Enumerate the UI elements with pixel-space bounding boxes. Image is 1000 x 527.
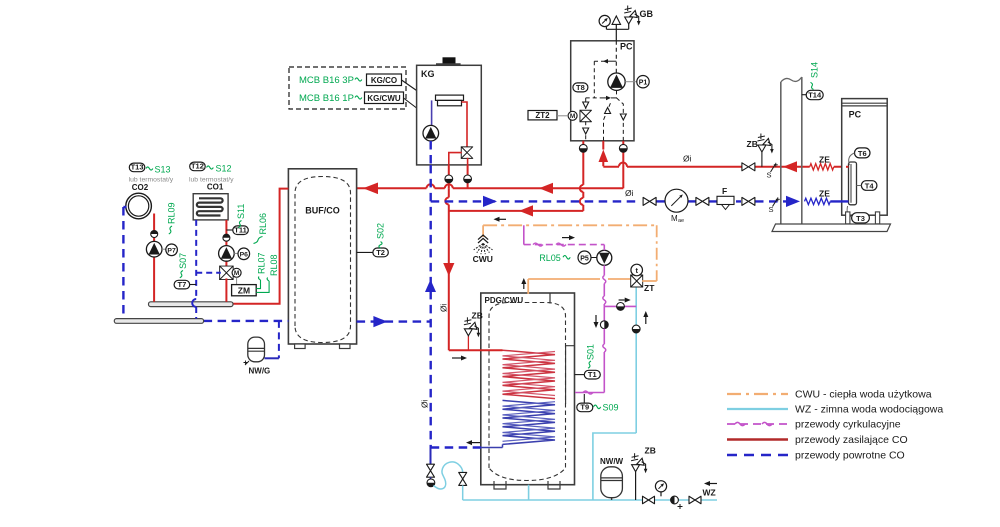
svg-text:Øi: Øi xyxy=(683,154,692,164)
wire KG/CWU to boiler xyxy=(404,98,417,108)
svg-text:T8: T8 xyxy=(576,83,585,92)
shower CWU symbol xyxy=(478,235,488,243)
wire dashed to 3way valve xyxy=(585,98,587,111)
DHW coil blue xyxy=(503,400,556,444)
wire red KG/CO drop to bus xyxy=(467,165,469,188)
flow arrow CWU left xyxy=(500,218,507,220)
sensor T11 link xyxy=(226,229,233,231)
wire red heat pump supply line xyxy=(603,166,848,168)
svg-text:przewody zasilające CO: przewody zasilające CO xyxy=(795,434,908,446)
wire green ZM to RL08 xyxy=(256,281,269,292)
wire cold water main WZ xyxy=(463,499,717,501)
wire top connection PC xyxy=(615,29,617,41)
wire squiggle S13 xyxy=(146,167,153,170)
sensor T14 xyxy=(806,90,823,99)
flow arrow branch right xyxy=(619,299,625,301)
manifold return bar xyxy=(114,319,203,324)
sensor T11 xyxy=(233,226,249,235)
wire blue KG internal supply xyxy=(431,100,433,125)
wire blue dashed KG pump to bottom xyxy=(430,141,432,165)
check valve WZ xyxy=(671,496,679,504)
big blue arrow up riser xyxy=(425,280,436,293)
svg-text:przewody powrotne CO: przewody powrotne CO xyxy=(795,450,905,462)
wire red KG valve bottom branch xyxy=(467,158,469,165)
floor plate outdoor xyxy=(772,224,891,232)
flow arrow circulation right xyxy=(562,237,569,239)
wire squiggle S11 xyxy=(238,221,241,228)
boiler KG enclosure xyxy=(417,65,482,165)
air vent above PC xyxy=(612,16,621,25)
svg-text:PC: PC xyxy=(849,110,862,120)
node M actuator PC xyxy=(568,111,577,120)
sensor T4 xyxy=(861,181,877,191)
svg-text:S02: S02 xyxy=(376,223,386,239)
pump P6 xyxy=(219,246,235,262)
legend return line xyxy=(727,454,788,457)
manifold supply bar xyxy=(149,302,234,307)
node P5 tag xyxy=(578,251,591,264)
DHW tank PDG/CWU xyxy=(481,293,575,485)
sensor T1 link xyxy=(575,374,585,376)
sensor T8 xyxy=(573,83,588,92)
svg-text:BUF/CO: BUF/CO xyxy=(305,206,340,216)
wire squiggle RL05 xyxy=(563,255,570,259)
wire squiggle S14 xyxy=(811,82,814,89)
wire magenta circulation drop from CWU line xyxy=(523,225,525,244)
wire green ZM to RL07 xyxy=(256,280,260,289)
thermometer t on ZT xyxy=(631,264,643,276)
node P1 tag xyxy=(637,76,649,88)
ball valve KG left xyxy=(445,175,453,183)
wire orange ZT right loop xyxy=(642,280,657,282)
wire red CO2 riser xyxy=(153,214,155,302)
wire magenta pump down xyxy=(603,265,605,275)
svg-text:P6: P6 xyxy=(240,252,249,259)
relief valve ZB on HP line xyxy=(761,152,763,167)
check valve circulation vertical xyxy=(600,321,608,329)
svg-text:S09: S09 xyxy=(603,403,619,413)
big red arrow on bus y188 xyxy=(539,183,553,194)
relief valve ZB at DHW feed xyxy=(467,336,469,350)
svg-text:M: M xyxy=(671,214,678,223)
wire orange drop to shower xyxy=(482,225,484,237)
wire P1 tag link xyxy=(625,81,637,83)
valve WZ 2 xyxy=(689,496,695,504)
buffer feet xyxy=(295,344,306,349)
radiator CO1 serpentine xyxy=(197,198,223,215)
wire red KG/CWU drop to bus xyxy=(448,165,450,188)
flow arrow CWU up xyxy=(523,284,525,289)
svg-text:GB: GB xyxy=(640,9,654,19)
svg-text:S: S xyxy=(767,171,772,180)
svg-text:CO2: CO2 xyxy=(132,183,149,192)
svg-text:T14: T14 xyxy=(808,91,822,100)
sensor T14 stub xyxy=(802,94,806,96)
svg-text:P5: P5 xyxy=(580,256,589,263)
sensor T7 xyxy=(174,280,190,289)
ball valve PC right xyxy=(619,144,627,152)
flex hose to fill valve xyxy=(434,462,463,489)
svg-text:T12: T12 xyxy=(191,162,204,171)
svg-text:RL06: RL06 xyxy=(258,213,268,235)
svg-text:WZ: WZ xyxy=(703,488,716,498)
svg-text:S01: S01 xyxy=(586,344,596,360)
wire KG/CO to boiler xyxy=(402,80,417,91)
svg-text:M: M xyxy=(570,113,575,120)
svg-text:RL05: RL05 xyxy=(539,253,561,263)
ball valve PC left xyxy=(579,144,587,152)
wire orange to ZT left xyxy=(528,278,600,280)
wire squiggle S12 xyxy=(207,166,214,169)
legend circulation line xyxy=(727,423,788,425)
wire M to ZM xyxy=(236,277,238,284)
wire red buffer left feed xyxy=(233,189,288,304)
svg-text:MCB B16 3P: MCB B16 3P xyxy=(299,75,354,86)
wire squiggle MCB1P xyxy=(355,96,362,99)
svg-text:Øi: Øi xyxy=(625,188,634,198)
node ZT2 tag box xyxy=(528,111,557,120)
wire blue vertical main riser xyxy=(430,165,432,449)
pump P1 xyxy=(608,73,625,90)
valve on red HP line xyxy=(742,163,749,171)
wire magenta down to tank port xyxy=(603,306,605,320)
wire red feed inside DHW tank xyxy=(480,349,503,351)
svg-text:T9: T9 xyxy=(580,403,589,412)
check valve on cold riser xyxy=(632,325,640,333)
svg-text:Øi: Øi xyxy=(420,399,430,408)
sensor T2 xyxy=(373,248,388,257)
sensor break S+ red line xyxy=(771,164,776,172)
wire squiggle S02 xyxy=(379,242,382,248)
wire cold feed riser to ZT xyxy=(593,287,636,500)
DHW tank bottom stem xyxy=(528,485,530,500)
wire red bus y188 to buffer xyxy=(357,187,624,189)
svg-text:ZT2: ZT2 xyxy=(535,111,550,120)
heat pump outdoor PC box xyxy=(842,99,888,216)
wire blue return manifold to buffer xyxy=(204,320,289,322)
radiator CO1 panel xyxy=(193,194,228,220)
svg-text:ZT: ZT xyxy=(644,283,655,293)
buffer inner vessel dashed xyxy=(295,177,351,343)
svg-text:ZB: ZB xyxy=(645,446,656,456)
svg-text:RL07: RL07 xyxy=(257,252,267,274)
wire magenta circulation horizontal xyxy=(524,244,605,246)
wire P6 link xyxy=(234,252,239,254)
svg-text:P1: P1 xyxy=(639,80,648,87)
flow arrow WZ in xyxy=(710,483,717,485)
sensor channel DHW xyxy=(566,345,575,347)
svg-text:ZB: ZB xyxy=(747,139,758,149)
controller PC indoor unit box xyxy=(571,41,634,141)
check valve CO1 xyxy=(223,234,230,241)
svg-text:CWU - ciepła woda użytkowa: CWU - ciepła woda użytkowa xyxy=(795,389,932,401)
svg-text:Øi: Øi xyxy=(439,303,449,312)
big red arrow on bus y211 xyxy=(519,205,533,216)
svg-text:T13: T13 xyxy=(131,163,144,172)
svg-text:CWU: CWU xyxy=(473,254,493,264)
svg-text:NW/G: NW/G xyxy=(249,367,271,376)
wire P7 link xyxy=(162,248,166,250)
svg-text:P7: P7 xyxy=(167,248,176,255)
flow arrow out of DHW coil xyxy=(472,442,480,444)
wire blue into HP exchanger xyxy=(830,200,848,202)
svg-text:S13: S13 xyxy=(155,165,171,175)
expansion vessel NW/W xyxy=(601,467,623,498)
flow arrow up cold riser xyxy=(645,317,647,324)
wire squiggle MCB3P xyxy=(355,78,362,81)
svg-text:ZE: ZE xyxy=(819,155,830,165)
wire dashed PC top to pump xyxy=(615,41,617,73)
valve drain blue riser xyxy=(430,449,432,465)
legend CWU line xyxy=(727,393,788,395)
valve WZ 1 xyxy=(643,496,649,504)
sensor T12 xyxy=(190,162,206,171)
wire magenta elbow to tank xyxy=(575,392,604,394)
svg-text:RL09: RL09 xyxy=(167,202,177,224)
sensor T9 stub xyxy=(583,394,585,403)
wire dashed PC right port xyxy=(617,98,624,141)
svg-text:T3: T3 xyxy=(856,214,865,223)
wire squiggle S09 xyxy=(594,405,601,409)
valve 3-way KG xyxy=(461,147,473,153)
HP exchanger xyxy=(849,162,857,205)
wire squiggle RL09 xyxy=(169,226,172,234)
svg-text:przewody cyrkulacyjne: przewody cyrkulacyjne xyxy=(795,419,901,431)
pressure gauge above PC xyxy=(599,15,610,26)
node M actuator CO1 xyxy=(232,268,241,277)
wire magenta pump top xyxy=(603,245,605,251)
wire red PC right drop xyxy=(622,141,624,189)
sensor T13 xyxy=(129,163,145,172)
flow arrow circulation down xyxy=(595,315,597,322)
svg-text:KG/CO: KG/CO xyxy=(371,76,397,85)
wire blue CO1 valve left branch xyxy=(196,272,221,274)
svg-text:ZE: ZE xyxy=(819,189,830,199)
wire CWU orange from tank top xyxy=(527,279,529,294)
svg-text:KG/CWU: KG/CWU xyxy=(367,94,401,103)
svg-text:MCB B16 1P: MCB B16 1P xyxy=(299,93,354,104)
svg-text:T4: T4 xyxy=(865,181,875,190)
wire red CO1 riser xyxy=(225,220,227,267)
heat exchanger in KG xyxy=(436,95,464,100)
svg-text:S: S xyxy=(769,205,774,214)
big red arrow into buffer xyxy=(363,183,378,195)
DHW inner vessel dashed xyxy=(489,303,566,481)
svg-text:T6: T6 xyxy=(858,149,867,158)
wire blue dashed into DHW tank xyxy=(431,446,481,448)
node P7 tag xyxy=(166,244,178,256)
svg-text:ZM: ZM xyxy=(238,285,250,295)
wire: MCB supply dashed enclosure box xyxy=(289,67,406,109)
wire red into HP exchanger xyxy=(846,166,849,168)
sensor T2 link xyxy=(357,251,373,253)
svg-text:S14: S14 xyxy=(810,62,820,78)
node ZM box xyxy=(232,285,257,296)
ball valve KG right xyxy=(464,175,472,183)
wire red CO1 valve to manifold xyxy=(225,278,227,301)
wire blue return bus xyxy=(431,200,640,202)
boiler KG chimney xyxy=(443,57,456,64)
wire P5 link xyxy=(591,257,597,259)
sensor T9 xyxy=(577,403,593,412)
filter F xyxy=(717,196,734,204)
wire blue DHW coil exit xyxy=(481,447,503,449)
wire squiggle S01 xyxy=(588,361,591,368)
pump KG internal xyxy=(423,125,439,141)
sensor T3 xyxy=(852,213,870,223)
safety valve GB xyxy=(628,24,630,29)
ball drain end xyxy=(427,479,435,487)
wire blue CO2 return riser xyxy=(122,207,124,319)
node P6 tag xyxy=(238,248,250,260)
pump circulation P5 xyxy=(597,250,612,265)
svg-text:RL08: RL08 xyxy=(269,254,279,276)
radiator CO2 circle xyxy=(126,193,152,219)
valve on blue bus 3 xyxy=(742,197,749,205)
svg-text:T7: T7 xyxy=(178,280,187,289)
HP feet xyxy=(846,212,850,224)
wire dashed PC middle port xyxy=(604,103,611,141)
flow arrow into DHW coil xyxy=(452,357,461,359)
wire blue CO1 return riser xyxy=(195,220,197,299)
node KG/CWU box xyxy=(365,92,404,104)
sensor T6 xyxy=(855,148,871,158)
sensor T1 xyxy=(584,370,600,379)
wire blue buffer bottom out right xyxy=(357,320,431,322)
wire red drop to DHW coil xyxy=(449,188,503,350)
svg-text:WZ - zimna woda wodociągowa: WZ - zimna woda wodociągowa xyxy=(795,404,943,416)
wire squiggle S07 xyxy=(180,271,183,278)
wire red PC left drop xyxy=(582,141,584,211)
wire red PC middle drop with up arrow xyxy=(602,162,604,166)
wall partition xyxy=(781,77,802,224)
svg-text:ae: ae xyxy=(678,218,684,224)
wire red KG valve left branch xyxy=(449,153,462,165)
wire red KG internal xyxy=(462,102,468,147)
node KG/CO box xyxy=(367,74,402,86)
expansion vessel NW/G xyxy=(248,337,265,362)
svg-text:S07: S07 xyxy=(178,253,188,269)
big red arrow down to DHW tank xyxy=(443,263,454,276)
svg-text:PC: PC xyxy=(620,42,633,52)
heater ZE blue zigzag xyxy=(805,198,831,204)
sensor break S+ blue line xyxy=(773,199,778,207)
big blue arrow mid bus xyxy=(483,196,497,207)
wire magenta branch to cold riser xyxy=(604,305,636,307)
wire dashed recirc top xyxy=(608,60,616,62)
valve 3-way PC with actuator M xyxy=(580,110,592,116)
svg-text:S12: S12 xyxy=(216,164,232,174)
wire dashed pump bottom junction xyxy=(616,90,618,98)
valve on blue bus 2 xyxy=(696,197,703,205)
valve on blue bus 1 xyxy=(643,197,650,205)
big blue arrow buffer out xyxy=(373,316,387,327)
svg-text:M: M xyxy=(234,270,239,277)
wire red bus y211 xyxy=(449,210,584,212)
big red arrow HP supply xyxy=(783,161,797,172)
DHW top stub xyxy=(549,293,551,304)
buffer tank BUF/CO xyxy=(288,169,356,344)
svg-text:T1: T1 xyxy=(588,370,597,379)
sensor T7 link xyxy=(190,284,197,286)
legend supply line xyxy=(727,438,788,440)
wire orange CWU top loop xyxy=(483,224,657,226)
svg-text:NW/W: NW/W xyxy=(600,457,624,466)
pump P7 xyxy=(146,241,162,257)
big blue arrow to HP xyxy=(786,196,800,207)
wire squiggle RL06 xyxy=(254,237,263,244)
svg-text:T2: T2 xyxy=(376,248,385,257)
legend WZ line xyxy=(727,408,788,410)
svg-text:CO1: CO1 xyxy=(207,182,224,191)
relief valve ZB cold water xyxy=(635,472,637,500)
pressure gauge WZ xyxy=(660,492,662,496)
flow meter M xyxy=(665,189,688,212)
svg-text:KG: KG xyxy=(421,69,435,79)
svg-text:ZB: ZB xyxy=(472,311,483,321)
heater ZE red zigzag xyxy=(810,164,834,170)
DHW coil red xyxy=(503,350,556,398)
valve fill xyxy=(459,472,467,479)
check valve circulation branch xyxy=(617,303,625,311)
check valve CO2 xyxy=(151,231,158,238)
wire dashed PC valve to left port xyxy=(585,121,587,141)
svg-text:S11: S11 xyxy=(236,204,246,219)
valve 4-way mixing CO1 xyxy=(220,266,234,273)
svg-text:T11: T11 xyxy=(234,226,247,235)
thermostatic valve ZT xyxy=(631,275,643,281)
NW/G drain mark xyxy=(244,361,250,366)
DHW feet xyxy=(494,481,506,489)
svg-text:F: F xyxy=(722,186,727,196)
wire blue to NW/G xyxy=(278,321,280,358)
svg-text:PDG/CWU: PDG/CWU xyxy=(485,296,524,305)
